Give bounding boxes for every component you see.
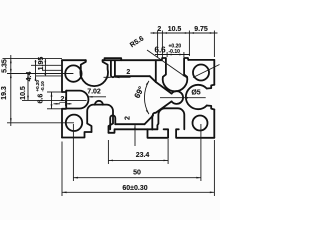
top hanging rib 2mm [111, 61, 115, 77]
ext line 1.95 ref [42, 69, 62, 71]
dim text 6.6 left with tolerance [35, 80, 45, 104]
svg-text:1.95: 1.95 [38, 57, 45, 71]
screw notch small at left junction [95, 101, 103, 105]
60 dim line [62, 191, 214, 193]
svg-text:4.4: 4.4 [26, 72, 33, 82]
profile left edge lower [61, 109, 63, 138]
svg-text:2: 2 [126, 69, 130, 76]
dim line 10.5 left [27, 74, 29, 101]
top-right T-slot with raised lips [162, 58, 189, 91]
svg-text:6.6: 6.6 [155, 46, 167, 55]
svg-text:10.5: 10.5 [20, 86, 27, 100]
keyhole bulb circle [172, 91, 183, 104]
profile top edge left run [62, 59, 86, 61]
C channel right [186, 85, 207, 109]
svg-text:6.6: 6.6 [38, 94, 45, 104]
23.4 ext lines [107, 140, 109, 164]
69 deg dimension arc [144, 81, 148, 114]
left channel mouth inner wall [65, 91, 67, 109]
svg-text:5.35: 5.35 [2, 59, 9, 73]
2 bottom wall arrow [134, 124, 136, 146]
ext line bottom hole center [7, 122, 74, 124]
wall below V mouth [151, 116, 153, 130]
7.02 leader [88, 96, 106, 98]
R5.6 leader [147, 50, 187, 78]
profile right edge lower and bottom of right block [213, 110, 215, 138]
keyhole V slot upper line [156, 82, 172, 94]
svg-text:2: 2 [61, 96, 65, 103]
svg-text:2: 2 [157, 26, 161, 33]
svg-text:7.02: 7.02 [87, 89, 101, 96]
ext line top hole center [7, 73, 73, 75]
bottom-center slot right lip and bottom edge right [176, 129, 214, 138]
left face T-slot stadium channel [62, 91, 88, 109]
hole bottom-left [66, 115, 82, 131]
hole bottom-right [193, 116, 208, 131]
50 dim line [73, 177, 200, 179]
dim 2 left arrows [54, 103, 61, 105]
svg-text:9.75: 9.75 [194, 26, 208, 33]
floor chamfer to V mouth [145, 116, 153, 125]
60 ext lines [61, 142, 63, 197]
top dim line [151, 32, 218, 34]
C channel upper mouth tab [207, 85, 215, 89]
ext line top ref [3, 58, 63, 60]
svg-text:Ø5: Ø5 [191, 90, 200, 97]
ext line lip ref [31, 64, 62, 66]
bottom-center T-slot [148, 129, 169, 138]
ext line mid center [22, 99, 87, 101]
dim line 4.4 [35, 60, 37, 81]
profile bottom edge left with step [62, 132, 92, 138]
svg-text:-0.10: -0.10 [169, 49, 181, 55]
svg-text:50: 50 [133, 170, 141, 177]
keyhole V slot lower line with curl [153, 101, 172, 115]
50 ext lines [72, 124, 74, 181]
2 top wall arrows [104, 76, 111, 78]
svg-text:19.3: 19.3 [1, 86, 8, 100]
ext line channel mouth top [47, 91, 62, 93]
center cavity ceiling [115, 75, 150, 77]
bottom-center slot left stem [157, 108, 184, 129]
svg-text:2: 2 [125, 116, 132, 120]
23.4 dim line [108, 159, 168, 161]
O5 leader [160, 97, 206, 99]
dim line 5.35 and 19.3 [10, 55, 12, 126]
profile top edge right run [188, 59, 214, 61]
profile right edge upper [213, 60, 215, 85]
dim line 6.6 left [51, 92, 53, 109]
C channel lower mouth tab [207, 106, 215, 110]
svg-text:60±0.30: 60±0.30 [122, 185, 147, 192]
hole top-right [193, 65, 209, 81]
diagonal leader top-right [193, 65, 220, 78]
svg-text:-0.10: -0.10 [40, 81, 45, 92]
svg-text:10.5: 10.5 [168, 26, 182, 33]
chamfer ceiling to wall [150, 76, 156, 82]
svg-text:R5.6: R5.6 [129, 35, 145, 49]
bottom-left arch T-slot [87, 105, 113, 133]
hole top-left [65, 65, 81, 81]
raised cap over rib [105, 58, 122, 60]
bottom rising rib 2mm [110, 115, 115, 129]
arrowheads [10, 59, 12, 64]
ext line channel mouth bottom [47, 108, 62, 110]
top ext lines [157, 31, 159, 58]
svg-text:23.4: 23.4 [136, 152, 150, 159]
ext line 4.4 ref [36, 75, 62, 77]
bottom middle recessed ledge [109, 129, 158, 133]
dim line 1.95 [44, 59, 46, 76]
top-left T-slot [80, 60, 108, 86]
profile left edge upper [61, 60, 63, 92]
center cavity floor [115, 123, 144, 125]
profile top edge middle run [103, 59, 162, 61]
slot2 left outer wall [155, 60, 157, 82]
6.6 top dim [166, 52, 168, 57]
